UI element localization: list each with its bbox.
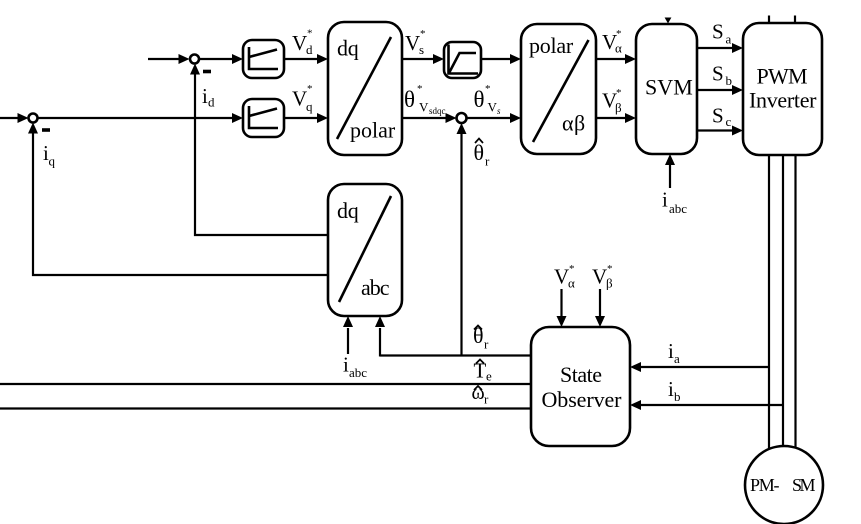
svg-text:c: c [726,114,732,129]
svg-text:V: V [292,87,307,111]
label Sa [712,20,732,47]
block state observer [531,327,630,446]
svg-text:b: b [726,73,733,88]
svg-text:b: b [674,389,681,404]
wire SVM to PWM inverter, node Sa [697,43,743,53]
svg-text:d: d [208,95,215,110]
block dq to polar transform [328,22,402,155]
wire dq-polar to saturation, node Vs* [402,54,444,64]
label id [202,84,215,110]
wire iq feedback from dq-abc to summing junction 2 [28,123,328,276]
svg-text:*: * [607,263,613,275]
svg-text:dq: dq [337,198,359,223]
wire Vbeta* input into state observer [595,289,605,327]
svg-text:r: r [485,154,490,169]
svg-text:abc: abc [349,365,367,380]
wire iabc input into SVM bottom [665,154,675,188]
wire id feedback from dq-abc to summing junction 1 [190,64,328,236]
svg-text:S: S [712,62,724,86]
svg-text:*: * [420,28,426,40]
svg-text:q: q [49,154,56,169]
svg-text:abc: abc [361,275,390,300]
summing junction 2 [29,114,38,123]
wire Valpha* input into state observer [557,289,567,327]
label Vbeta* at state observer input [592,263,613,291]
svg-text:Observer: Observer [542,387,623,412]
wire SVM to PWM inverter, node Sb [697,85,743,95]
svg-text:abc: abc [669,201,687,216]
label theta*Vsdqc [404,83,446,116]
wire polar-alphabeta to SVM, node Vbeta* [596,113,636,123]
wire saturation to polar-alphabeta [481,54,521,64]
svg-text:a: a [726,32,732,47]
svg-text:s: s [497,106,501,116]
svg-text:θ: θ [474,87,485,112]
svg-text:θ: θ [474,140,485,165]
summing junction 3 [457,113,467,123]
wire SVM to PWM inverter, node Sc [697,126,743,136]
label theta_r estimate at summing junction 3 [474,139,491,169]
label Sb [712,62,732,89]
wire ib from phase line b to state observer [630,400,783,410]
svg-text:a: a [674,351,680,366]
block SVM [636,24,697,154]
wire DC stub right on PWM inverter top [794,16,796,25]
wire DC stub left on PWM inverter top [768,16,770,25]
label iabc at SVM input [662,188,687,217]
svg-text:V: V [488,100,498,115]
label Vbeta* at polar-alphabeta output [602,87,622,115]
wire summing junction 3 to polar-alphabeta, node theta*Vs [467,113,522,123]
block PI controller 1 [243,40,284,78]
wire omega_r estimate from state observer to left edge [0,407,531,409]
svg-text:*: * [616,28,622,40]
minus sign at summing junction 1 [203,70,211,74]
wire ia from phase line a to state observer [630,362,769,372]
label Te estimate [474,359,493,384]
label ia [668,339,680,366]
summing junction 1 [190,55,199,64]
label Sc [712,104,732,130]
svg-text:*: * [485,83,491,95]
svg-text:e: e [486,369,492,384]
svg-text:α: α [568,276,575,291]
svg-text:V: V [592,265,607,289]
svg-text:*: * [616,87,622,99]
svg-text:*: * [417,83,423,95]
wire arrow into SVM top [665,18,672,24]
svg-text:dq: dq [337,36,359,61]
svg-text:*: * [569,263,575,275]
label Vq* [292,83,313,114]
svg-text:i: i [662,188,668,212]
block polar to alpha-beta transform [521,24,596,154]
svg-text:V: V [292,31,307,55]
wire Te estimate from state observer to left edge [0,383,531,385]
svg-text:polar: polar [529,33,574,58]
svg-text:PWM: PWM [757,64,808,89]
svg-text:αβ: αβ [562,111,585,136]
svg-text:S: S [712,104,724,128]
motor PM-SM [745,446,823,524]
block dq to abc transform [328,184,402,316]
label Vs* [405,28,426,57]
label theta*Vs [474,83,502,116]
label Valpha* at polar-alphabeta output [602,28,622,56]
wire reference input to summing junction 2 [0,113,29,123]
wire iabc input into dq-abc [343,316,353,354]
label Valpha* at state observer input [554,263,575,291]
block saturation limiter [444,42,481,78]
svg-text:*: * [307,28,313,40]
svg-text:α: α [615,41,622,56]
svg-text:r: r [484,337,489,352]
svg-text:State: State [560,362,602,387]
wire dq-polar to summing junction 3, node theta*Vsdqc [402,113,457,123]
svg-text:sdqc: sdqc [429,106,446,116]
wire theta_r estimate from state observer to dq-abc and summing junction 3 [375,123,531,357]
wire summing junction 2 to PI controller 2 [38,113,244,123]
wire reference input to summing junction 1 [148,54,190,64]
svg-text:r: r [484,392,489,407]
wire PI controller 1 to dq-polar, node Vd* [284,54,328,64]
svg-text:SM: SM [792,475,816,495]
label omega_r estimate [472,382,490,407]
svg-text:q: q [306,99,313,114]
block PWM inverter [743,23,822,155]
svg-text:V: V [419,100,429,115]
block PI controller 2 [243,99,284,137]
svg-text:S: S [712,20,724,44]
wire phase line b from PWM inverter to motor [782,155,784,452]
label Vd* [292,28,313,58]
svg-text:V: V [554,265,569,289]
minus sign at summing junction 2 [42,128,50,132]
svg-text:β: β [606,276,613,291]
wire phase line c from PWM inverter to motor [794,155,796,452]
svg-text:d: d [306,42,313,57]
svg-text:β: β [615,100,622,115]
svg-text:θ: θ [404,87,415,112]
label iabc at dq-abc input [343,353,367,381]
svg-text:V: V [405,31,420,55]
svg-text:*: * [307,83,313,95]
svg-text:T: T [474,359,487,383]
svg-text:polar: polar [350,118,396,143]
label iq [43,141,56,169]
wire polar-alphabeta to SVM, node Valpha* [596,54,636,64]
label ib [668,377,681,404]
svg-text:PM-: PM- [750,475,780,495]
svg-text:SVM: SVM [645,75,693,100]
svg-text:Inverter: Inverter [749,88,817,113]
wire PI controller 2 to dq-polar, node Vq* [284,113,328,123]
svg-text:s: s [419,42,424,57]
label theta_r estimate at state observer [473,323,489,352]
wire phase line a from PWM inverter to motor [768,155,770,452]
wire summing junction 1 to PI controller 1 [200,54,244,64]
